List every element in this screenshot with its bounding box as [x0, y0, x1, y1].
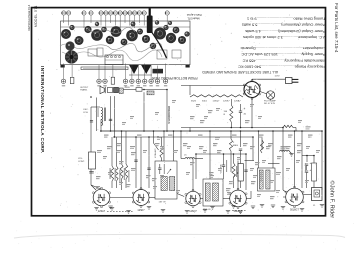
tube interconnect wires — [110, 197, 133, 199]
filament rail — [181, 85, 246, 87]
tube 35Z5GT V6 — [243, 80, 261, 100]
AC plug — [286, 78, 293, 84]
electrolytics right — [301, 131, 303, 188]
svg-text:470M AVC: 470M AVC — [154, 148, 157, 158]
chassis tubes (top view blobs) — [61, 29, 71, 39]
svg-text:INTERNATIONAL DETROLA CORP.: INTERNATIONAL DETROLA CORP. — [40, 66, 45, 154]
svg-text:VOL.: VOL. — [78, 158, 83, 160]
model text left top inside — [34, 5, 38, 27]
tube 50L6GT V4 — [229, 188, 247, 209]
tube top leads — [91, 185, 102, 189]
tube 50L6GT V5 — [285, 186, 304, 208]
ground symbols — [94, 207, 98, 209]
svg-text:35Z5: 35Z5 — [191, 101, 197, 103]
resistor box right — [312, 163, 317, 181]
alignment trimmer row — [63, 15, 65, 23]
svg-text:1ST I.F.: 1ST I.F. — [159, 201, 167, 203]
specification table (upside down) — [238, 17, 326, 70]
dial scale bar — [81, 67, 128, 70]
svg-text:Power Output (Maximum)........: Power Output (Maximum)..................… — [242, 23, 326, 28]
svg-text:12SK7: 12SK7 — [137, 209, 145, 212]
IF transformer 2 — [203, 179, 223, 206]
phono jack — [312, 188, 323, 201]
chassis top view outline — [61, 21, 191, 65]
wire down right of speaker — [166, 90, 168, 132]
field coil lead — [123, 89, 136, 91]
svg-text:450Ω: 450Ω — [125, 87, 130, 89]
chassis feet — [61, 65, 65, 68]
svg-text:For Parts List, see 7:15-4: For Parts List, see 7:15-4 — [334, 3, 339, 53]
publisher name left — [40, 66, 45, 154]
tube 12SQ7 V3 — [185, 189, 201, 207]
svg-text:12SA7: 12SA7 — [98, 210, 106, 213]
svg-text:Model 571: Model 571 — [187, 16, 200, 20]
svg-text:12SQ7: 12SQ7 — [213, 101, 221, 103]
svg-text:Frequency Range...............: Frequency Range.........................… — [238, 65, 326, 70]
svg-text:12SQ7: 12SQ7 — [189, 210, 197, 213]
svg-text:Tuning Drive Ratio............: Tuning Drive Ratio......................… — [247, 17, 326, 22]
oscillator coil — [100, 106, 102, 109]
electrolytic can — [149, 9, 151, 17]
svg-text:V.C. Impedance..............3.: V.C. Impedance..............3.2 ohms at … — [243, 35, 326, 40]
junction dots — [110, 130, 112, 132]
svg-text:Intermediate Frequency........: Intermediate Frequency..................… — [242, 58, 325, 63]
avc resistor left of IF1 — [161, 137, 163, 147]
svg-text:DETROLA PAGE 19-4: DETROLA PAGE 19-4 — [27, 4, 31, 30]
filament string resistor — [190, 95, 243, 97]
svg-text:Loudspeaker...................: Loudspeaker.............................… — [240, 46, 325, 51]
svg-text:OSC.: OSC. — [83, 109, 89, 111]
dropping resistor — [230, 99, 232, 105]
svg-text:117V.: 117V. — [275, 76, 281, 78]
main bus — [100, 130, 322, 132]
output transformer at speaker — [108, 87, 113, 92]
speaker top view (spoked) — [65, 50, 78, 63]
if can with terminals — [105, 55, 123, 65]
wires from output transformer — [110, 96, 112, 131]
scan page edge shadow — [14, 234, 345, 238]
svg-text:MEG: MEG — [233, 145, 238, 147]
svg-text:ALL TUBE SOCKETS ARE SHOWN AND: ALL TUBE SOCKETS ARE SHOWN AND VIEWED — [201, 70, 278, 74]
choke on output rail — [280, 150, 290, 151]
svg-text:50L6: 50L6 — [202, 101, 208, 103]
svg-text:NO. 47 6.3V: NO. 47 6.3V — [264, 103, 276, 105]
rider credit right bottom — [329, 181, 336, 219]
line to plug — [251, 79, 253, 81]
volume pot — [240, 131, 242, 147]
parts layout caption — [187, 13, 202, 17]
svg-text:©John F. Rider: ©John F. Rider — [329, 181, 336, 219]
svg-text:CONT.: CONT. — [78, 161, 85, 163]
secondary bus — [113, 136, 253, 138]
volume control branch — [90, 107, 92, 152]
B- rail — [181, 127, 283, 129]
coupling caps — [135, 137, 137, 188]
svg-text:TRANS.: TRANS. — [80, 89, 88, 92]
svg-text:MODEL 571: MODEL 571 — [34, 5, 38, 27]
svg-text:+: + — [244, 107, 246, 111]
speaker — [100, 86, 104, 93]
parts list note right top — [334, 3, 339, 53]
socket note (upside down) — [201, 70, 278, 74]
svg-text:Power Supply..................: Power Supply......................105-12… — [241, 52, 325, 57]
bottom view capacitor rects — [70, 77, 74, 83]
svg-text:50L6GT: 50L6GT — [290, 209, 299, 212]
svg-text:Power Output (Undistorted)....: Power Output (Undistorted)..............… — [245, 29, 325, 34]
pilot lamp — [266, 91, 274, 99]
output transformer — [258, 168, 276, 191]
dress cable — [151, 31, 167, 58]
tube 12SA7 V1 — [92, 187, 110, 208]
extra label smudges — [97, 150, 102, 151]
choke — [180, 131, 182, 159]
svg-text:12SA7: 12SA7 — [234, 100, 241, 103]
scan noise — [218, 14, 221, 17]
IF transformer 1 — [155, 161, 177, 199]
svg-text:COIL: COIL — [83, 112, 89, 114]
svg-text:12SK7: 12SK7 — [223, 101, 230, 103]
grid resistors cluster — [111, 137, 113, 166]
page-number text left top outside — [27, 4, 31, 30]
tube 12SK7 V2 — [132, 188, 150, 208]
gang dashed link — [107, 211, 133, 213]
filter cap — [240, 104, 242, 111]
page border — [32, 8, 326, 216]
b+ distribution — [196, 153, 246, 155]
socket location circles below chassis — [63, 64, 65, 80]
vertical label smudges — [115, 168, 116, 181]
svg-text:2ND I.F.: 2ND I.F. — [203, 209, 211, 211]
detector network — [223, 154, 225, 165]
svg-text:FROM BOTTOM PRONG VIEW: FROM BOTTOM PRONG VIEW — [152, 76, 197, 80]
tuning gang bowties — [129, 65, 139, 74]
